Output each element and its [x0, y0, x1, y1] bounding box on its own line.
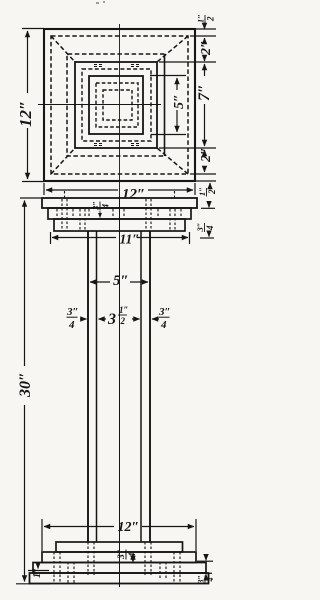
svg-text:4: 4	[128, 553, 138, 559]
svg-text:1″: 1″	[119, 305, 129, 315]
svg-text:2″: 2″	[199, 147, 214, 163]
svg-text:4: 4	[206, 578, 215, 583]
svg-text:2: 2	[206, 16, 216, 22]
svg-text:4: 4	[160, 319, 167, 331]
svg-text:3″: 3″	[158, 306, 171, 318]
svg-text:2: 2	[207, 189, 217, 195]
svg-text:12″: 12″	[118, 520, 140, 535]
svg-text:3″: 3″	[91, 201, 101, 211]
svg-text:30″: 30″	[17, 372, 34, 398]
svg-text:1″: 1″	[32, 567, 43, 578]
svg-text:1″: 1″	[196, 14, 206, 23]
svg-text:3: 3	[107, 311, 116, 328]
svg-text:12″: 12″	[16, 101, 35, 127]
svg-text:5″: 5″	[172, 94, 187, 109]
svg-text:3″: 3″	[197, 575, 206, 584]
svg-text:5″: 5″	[113, 273, 129, 289]
svg-text:3″: 3″	[66, 306, 79, 318]
svg-text:4: 4	[205, 225, 215, 231]
svg-text:7″: 7″	[196, 84, 213, 101]
svg-text:4: 4	[68, 319, 75, 331]
svg-text:1″: 1″	[197, 187, 207, 196]
svg-text:3″: 3″	[195, 223, 205, 233]
svg-text:2″: 2″	[199, 40, 214, 56]
svg-text:12″: 12″	[122, 187, 145, 203]
svg-text:2: 2	[120, 316, 126, 326]
svg-text:4: 4	[101, 204, 111, 210]
svg-text:11″: 11″	[120, 232, 140, 247]
